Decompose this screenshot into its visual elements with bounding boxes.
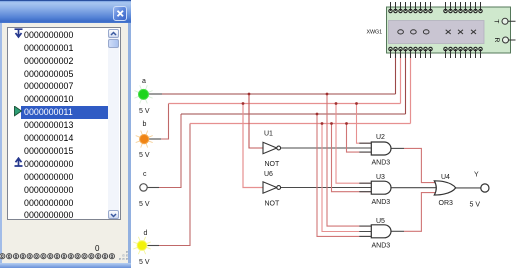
svg-text:5 V: 5 V	[139, 108, 150, 115]
svg-text:R: R	[493, 38, 500, 43]
svg-text:U4: U4	[441, 174, 450, 181]
svg-text:d: d	[144, 230, 148, 237]
svg-text:NOT: NOT	[265, 201, 281, 208]
svg-text:U1: U1	[264, 131, 273, 138]
svg-text:NOT: NOT	[265, 161, 281, 168]
svg-text:AND3: AND3	[372, 243, 391, 250]
svg-text:T: T	[493, 19, 500, 23]
svg-text:XWG1: XWG1	[367, 30, 383, 36]
svg-text:5 V: 5 V	[139, 259, 150, 266]
svg-text:5 V: 5 V	[470, 202, 481, 209]
svg-text:Y: Y	[474, 172, 479, 179]
svg-text:5 V: 5 V	[139, 201, 150, 208]
svg-text:U5: U5	[376, 218, 385, 225]
svg-text:AND3: AND3	[372, 160, 391, 167]
svg-text:5 V: 5 V	[139, 152, 150, 159]
svg-text:a: a	[142, 78, 146, 85]
svg-text:b: b	[143, 121, 147, 128]
svg-text:AND3: AND3	[372, 199, 391, 206]
svg-text:OR3: OR3	[439, 200, 454, 207]
svg-text:U2: U2	[376, 134, 385, 141]
svg-text:c: c	[143, 171, 147, 178]
svg-text:U6: U6	[264, 171, 273, 178]
svg-text:U3: U3	[376, 174, 385, 181]
